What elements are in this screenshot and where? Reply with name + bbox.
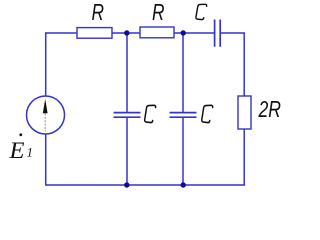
resistor R3 (2R) (238, 96, 251, 129)
wire between R1 and R2 (112, 32, 140, 34)
capacitor C2 plates (right shunt) (170, 113, 197, 118)
wire branch2 upper (182, 33, 184, 113)
svg-text:2R: 2R (258, 96, 281, 122)
wire R2 to capacitor C3 (174, 32, 214, 34)
wire bottom (45, 184, 245, 186)
capacitor C1 plates (left shunt) (114, 113, 141, 118)
label C (C1) (145, 105, 156, 122)
capacitor C3 plates (top, series) (215, 20, 221, 47)
wire left vertical upper (45, 32, 47, 96)
wire branch2 lower (182, 117, 184, 185)
resistor R2 (140, 27, 174, 38)
junction node bottom right (181, 182, 186, 187)
label C (C2) (202, 105, 213, 122)
source E1 circle (27, 96, 65, 134)
wire left vertical lower (45, 134, 47, 185)
source E1 arrow head (43, 99, 48, 113)
junction node bottom left (124, 182, 129, 187)
svg-text:R: R (152, 0, 165, 25)
wire top left (46, 32, 77, 34)
junction node top left (124, 30, 129, 35)
source E1 arrow shaft (44, 110, 46, 132)
resistor R1 (77, 28, 112, 39)
wire branch1 lower (126, 117, 128, 185)
wire right vertical upper (243, 32, 245, 96)
wire C3 to right corner (220, 32, 244, 34)
wire branch1 upper (126, 33, 128, 113)
label C (C3 top) (196, 4, 207, 19)
svg-text:R: R (92, 0, 105, 25)
wire right vertical lower (243, 129, 245, 186)
svg-text:E: E (8, 138, 24, 163)
svg-text:1: 1 (27, 145, 34, 160)
junction node top right (181, 30, 186, 35)
